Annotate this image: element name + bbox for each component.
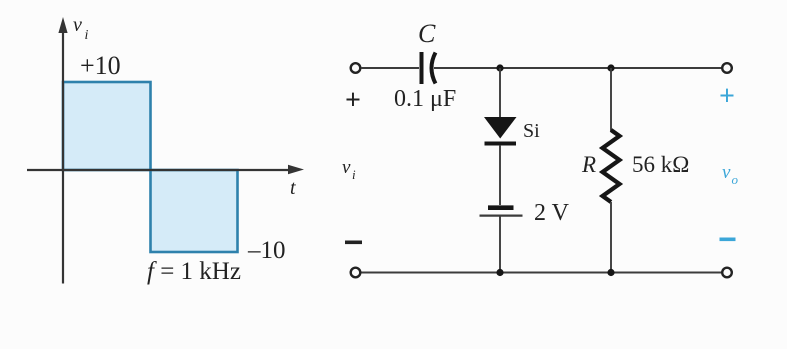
svg-text:o: o bbox=[732, 172, 739, 187]
bottom wire bbox=[361, 272, 722, 274]
terminal top-left bbox=[351, 63, 361, 73]
node junction top resistor bbox=[607, 64, 614, 71]
svg-text:0.1 μF: 0.1 μF bbox=[394, 86, 456, 112]
battery V1 positive plate (short thick) bbox=[488, 205, 514, 210]
vertical axis vi bbox=[58, 17, 67, 284]
horizontal axis t bbox=[27, 165, 304, 174]
svg-text:C: C bbox=[418, 19, 436, 48]
capacitor C1 left plate bbox=[420, 52, 424, 84]
node junction bottom diode branch bbox=[496, 269, 503, 276]
node junction top diode bbox=[496, 64, 503, 71]
svg-text:i: i bbox=[85, 28, 89, 43]
axis label t bbox=[290, 177, 296, 199]
waveform pulse -10 (second half cycle) bbox=[151, 170, 238, 252]
wire capacitor to top-right terminal bbox=[434, 67, 722, 69]
svg-text:i: i bbox=[352, 167, 356, 182]
resistor R zigzag bbox=[603, 130, 620, 202]
svg-text:+10: +10 bbox=[80, 51, 121, 80]
capacitor C1 right plate (curved) bbox=[432, 53, 436, 84]
capacitor label C bbox=[418, 19, 436, 48]
terminal bottom-left bbox=[351, 268, 361, 278]
label -10 bbox=[247, 237, 286, 264]
wire top node to diode anode bbox=[499, 68, 501, 117]
wire diode cathode to battery bbox=[499, 145, 501, 205]
terminal bottom-right bbox=[722, 268, 732, 278]
svg-text:f = 1 kHz: f = 1 kHz bbox=[147, 258, 241, 285]
input label v_i bbox=[342, 157, 356, 182]
output polarity plus (blue) bbox=[719, 81, 735, 112]
svg-text:+: + bbox=[345, 85, 361, 116]
wire resistor to bottom node bbox=[610, 202, 612, 273]
wire top-left to capacitor bbox=[361, 67, 419, 69]
battery value 2 V bbox=[534, 200, 570, 226]
node junction bottom resistor branch bbox=[607, 269, 614, 276]
output label v_o (blue) bbox=[722, 162, 739, 187]
svg-text:Si: Si bbox=[523, 120, 540, 142]
svg-text:v: v bbox=[722, 162, 731, 183]
diode label Si bbox=[523, 120, 540, 142]
waveform pulse +10 (first half cycle) bbox=[63, 82, 151, 170]
svg-text:R: R bbox=[581, 152, 596, 177]
input polarity minus bbox=[345, 241, 362, 245]
diode D1 (Si) bbox=[484, 117, 517, 144]
svg-text:–10: –10 bbox=[247, 237, 286, 264]
label +10 bbox=[80, 51, 121, 80]
output polarity minus (blue) bbox=[720, 238, 736, 242]
terminal top-right bbox=[722, 63, 732, 73]
svg-text:t: t bbox=[290, 177, 296, 199]
svg-text:v: v bbox=[342, 157, 351, 178]
label f = 1 kHz bbox=[147, 258, 241, 285]
wire top node to resistor bbox=[610, 68, 612, 131]
svg-text:+: + bbox=[719, 81, 735, 112]
capacitor value 0.1 uF bbox=[394, 86, 456, 112]
resistor label R bbox=[581, 152, 596, 177]
svg-text:56 kΩ: 56 kΩ bbox=[632, 152, 689, 177]
resistor value 56 kOhm bbox=[632, 152, 689, 177]
battery V1 negative plate (long thin) bbox=[480, 214, 523, 216]
wire battery to bottom node bbox=[499, 216, 501, 273]
svg-text:v: v bbox=[73, 14, 82, 36]
axis label v_i bbox=[73, 14, 89, 43]
input polarity plus bbox=[345, 85, 361, 116]
svg-text:2 V: 2 V bbox=[534, 200, 570, 226]
